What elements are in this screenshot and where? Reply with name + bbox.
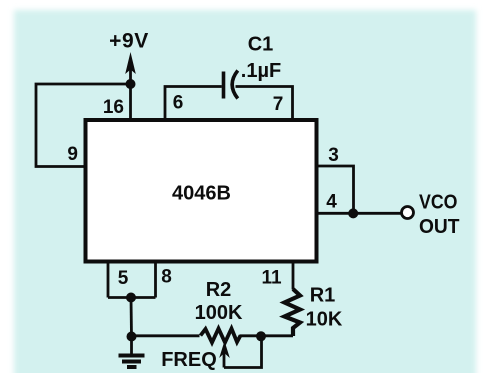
junction dot at ground node bbox=[127, 332, 137, 342]
svg-text:5: 5 bbox=[118, 268, 129, 289]
svg-text:100K: 100K bbox=[195, 302, 243, 324]
svg-text:+9V: +9V bbox=[109, 30, 149, 53]
wire to ground bbox=[130, 298, 133, 337]
svg-text:R2: R2 bbox=[206, 279, 232, 301]
wire pin16 to pin 9 loop bbox=[36, 84, 131, 167]
wire pin 7 stub bbox=[236, 87, 293, 121]
ground bbox=[119, 337, 145, 368]
svg-text:6: 6 bbox=[173, 93, 184, 114]
wire pin 4 to VCO OUT bbox=[317, 212, 402, 215]
wire pin 6 stub bbox=[165, 87, 222, 121]
wire pin 3 bbox=[317, 166, 354, 213]
svg-text:3: 3 bbox=[328, 145, 339, 166]
potentiometer R2 zigzag bbox=[201, 329, 241, 343]
svg-text:9: 9 bbox=[67, 144, 78, 165]
junction dot pins 3-4 bbox=[348, 208, 358, 218]
svg-text:11: 11 bbox=[261, 268, 282, 289]
wire pin 11 bbox=[292, 262, 295, 290]
svg-text:VCO: VCO bbox=[419, 192, 458, 214]
R2 wiper arrow bbox=[219, 341, 230, 368]
svg-text:8: 8 bbox=[161, 267, 172, 288]
wire ground node to R2 bbox=[132, 334, 200, 337]
wire R2 to R1 bottom bbox=[240, 334, 294, 337]
junction dot at +9V / pin 16 bbox=[126, 79, 136, 89]
svg-text:7: 7 bbox=[273, 94, 284, 115]
wire pin 8 stub bbox=[154, 262, 157, 298]
svg-text:4: 4 bbox=[326, 192, 337, 213]
wire wiper loop bbox=[224, 336, 262, 367]
svg-text:R1: R1 bbox=[310, 285, 336, 307]
junction dot below pin 5 bbox=[126, 293, 136, 303]
capacitor C1 bbox=[224, 71, 238, 99]
IC U1 4046B body bbox=[86, 120, 317, 262]
VCO OUT label bbox=[419, 192, 460, 239]
svg-text:C1: C1 bbox=[248, 34, 274, 56]
+9V supply arrow bbox=[125, 52, 136, 120]
svg-text:4046B: 4046B bbox=[172, 183, 231, 205]
svg-text:10K: 10K bbox=[306, 309, 343, 331]
resistor R1 zigzag bbox=[285, 289, 301, 336]
svg-text:OUT: OUT bbox=[419, 216, 460, 238]
wire pin 5 stub bbox=[107, 262, 110, 298]
svg-text:FREQ: FREQ bbox=[161, 349, 217, 371]
svg-text:.1µF: .1µF bbox=[241, 60, 281, 82]
svg-text:16: 16 bbox=[103, 97, 124, 118]
wire joining pins 5 and 8 bbox=[108, 296, 156, 299]
VCO OUT terminal circle bbox=[402, 207, 414, 219]
junction dot wiper return bbox=[256, 331, 266, 341]
